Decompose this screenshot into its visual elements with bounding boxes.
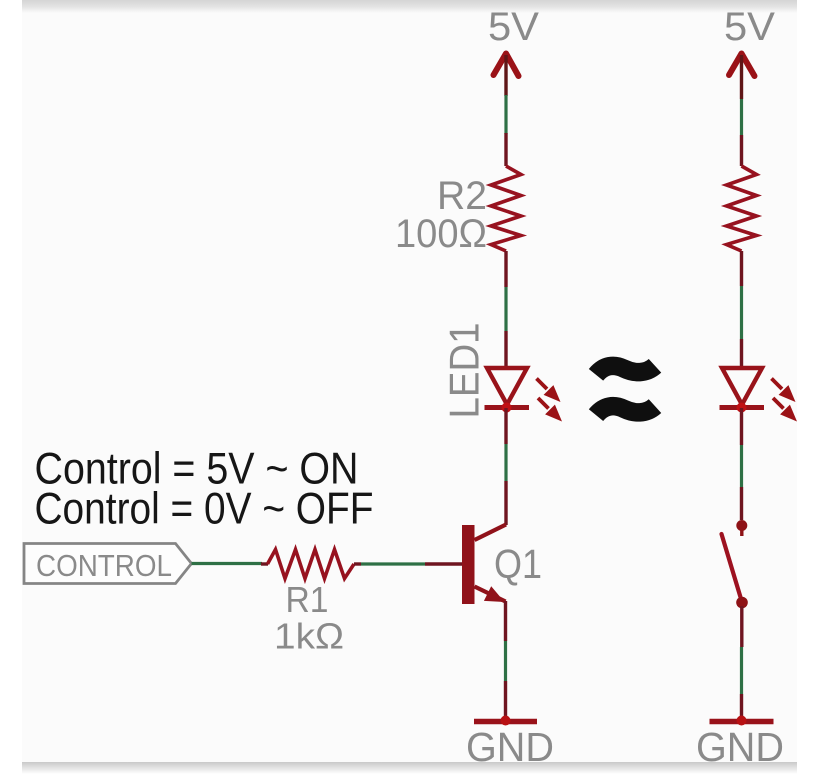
wire (740, 647, 743, 694)
switch S1 (722, 487, 748, 647)
power flag 5V right (724, 5, 775, 99)
svg-text:LED1: LED1 (441, 323, 488, 419)
wire (740, 286, 743, 339)
svg-text:5V: 5V (488, 5, 539, 49)
power flag 5V left (488, 5, 539, 96)
LED right (720, 339, 798, 445)
svg-text:1kΩ: 1kΩ (274, 616, 344, 657)
svg-text:R1: R1 (286, 579, 329, 620)
transistor Q1 (425, 481, 506, 641)
wire (740, 445, 743, 487)
svg-text:CONTROL: CONTROL (36, 548, 172, 583)
svg-text:GND: GND (466, 724, 554, 770)
connector CONTROL (24, 544, 192, 584)
label R2 (437, 174, 487, 218)
label 100Ω (395, 212, 487, 256)
svg-text:GND: GND (696, 724, 784, 770)
svg-text:Q1: Q1 (494, 541, 542, 587)
wire (192, 562, 263, 565)
annotation control text (35, 445, 374, 534)
resistor R1 (261, 550, 361, 579)
wire (504, 287, 507, 331)
label 1kΩ (274, 616, 344, 657)
wire (740, 99, 743, 135)
svg-text:Control = 0V ~ OFF: Control = 0V ~ OFF (35, 485, 374, 534)
approx equal symbol (596, 366, 655, 415)
svg-text:5V: 5V (724, 5, 775, 49)
LED LED1 (485, 331, 563, 444)
wire (504, 641, 507, 681)
wire (504, 95, 507, 134)
ground right (696, 694, 784, 770)
ground left (466, 681, 554, 770)
svg-text:100Ω: 100Ω (395, 212, 487, 256)
resistor right (727, 135, 757, 286)
wire (504, 444, 507, 481)
label LED1 (441, 323, 488, 419)
label Q1 (494, 541, 542, 587)
resistor R2 (491, 133, 521, 287)
wire (361, 562, 425, 565)
label R1 (286, 579, 329, 620)
